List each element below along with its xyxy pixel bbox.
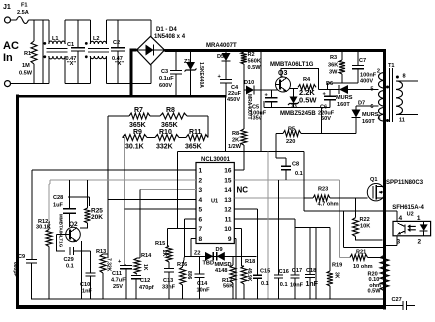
svg-text:R11: R11 xyxy=(189,129,202,136)
svg-text:0.5W: 0.5W xyxy=(368,288,382,294)
svg-text:1: 1 xyxy=(199,168,203,175)
svg-text:450V: 450V xyxy=(227,97,240,103)
svg-text:6: 6 xyxy=(199,216,203,223)
svg-text:49.9K: 49.9K xyxy=(246,268,252,282)
wire pin4 net xyxy=(108,198,196,200)
capacitor C8 xyxy=(281,165,291,167)
capacitor C3 xyxy=(175,52,177,71)
svg-text:C11: C11 xyxy=(112,271,122,277)
wire thick B+ rail xyxy=(165,49,386,52)
svg-text:8: 8 xyxy=(403,74,406,80)
svg-text:0.1uF: 0.1uF xyxy=(159,76,174,82)
svg-text:C10: C10 xyxy=(80,282,90,288)
svg-text:C15: C15 xyxy=(260,269,270,275)
wire R8 right down xyxy=(207,116,209,138)
svg-text:160T: 160T xyxy=(337,102,350,108)
wire aux pin6 xyxy=(356,105,379,107)
svg-text:MMBZ5245B: MMBZ5245B xyxy=(280,111,316,117)
svg-text:680pF: 680pF xyxy=(12,262,18,276)
wire top AC line xyxy=(11,19,17,21)
zener Z2 xyxy=(205,252,213,261)
svg-text:MRA4007T: MRA4007T xyxy=(206,43,237,49)
resistor R2 xyxy=(243,51,245,53)
svg-text:1nF: 1nF xyxy=(82,289,93,295)
svg-text:56K: 56K xyxy=(223,284,233,290)
svg-text:400V: 400V xyxy=(360,79,373,85)
capacitor C18 xyxy=(309,228,311,275)
svg-text:14: 14 xyxy=(224,187,232,194)
svg-text:R16: R16 xyxy=(177,262,187,268)
capacitor C11 xyxy=(125,264,127,266)
wire pin6 net xyxy=(185,218,197,220)
wire thick primary/drain vertical xyxy=(383,49,386,309)
svg-text:SFH615A-4: SFH615A-4 xyxy=(392,205,424,211)
wire Vcc to pin7 xyxy=(177,151,179,228)
capacitor C17 xyxy=(291,274,300,276)
svg-text:11: 11 xyxy=(399,118,405,124)
capacitor C14 xyxy=(199,256,201,274)
svg-text:C12: C12 xyxy=(140,278,150,284)
svg-text:2: 2 xyxy=(418,239,422,246)
wire R9 left vertical xyxy=(124,138,126,266)
capacitor C16 xyxy=(277,180,279,275)
svg-text:C16: C16 xyxy=(279,269,289,275)
transformer core xyxy=(389,68,391,122)
svg-text:33nF: 33nF xyxy=(162,285,176,291)
wire pin13 net xyxy=(234,197,303,199)
svg-text:AC: AC xyxy=(3,40,19,52)
wire pin11 net xyxy=(234,218,295,220)
wire thick bridge minus link xyxy=(130,50,133,97)
resistor R1 xyxy=(33,20,35,41)
wire R5 right up xyxy=(321,108,323,134)
capacitor C2 xyxy=(117,20,119,48)
svg-text:30.1K: 30.1K xyxy=(125,144,144,151)
opto LED xyxy=(423,221,425,224)
svg-text:2.5A: 2.5A xyxy=(17,10,29,16)
diode D5 xyxy=(225,52,227,53)
wire top AC to bridge xyxy=(150,20,152,36)
svg-text:3K: 3K xyxy=(334,272,340,279)
svg-text:600V: 600V xyxy=(159,83,172,89)
wire pin1 net xyxy=(32,169,196,171)
resistor R3 xyxy=(341,51,343,61)
resistor R20 xyxy=(380,255,388,291)
resistor R10 xyxy=(147,137,155,139)
svg-text:0.1: 0.1 xyxy=(295,171,303,177)
svg-text:1: 1 xyxy=(417,215,421,222)
resistor R7 xyxy=(108,115,129,117)
svg-text:1uF: 1uF xyxy=(53,203,64,209)
svg-text:R2: R2 xyxy=(248,52,255,58)
svg-text:806: 806 xyxy=(186,271,192,280)
svg-text:R4: R4 xyxy=(303,77,311,83)
resistor R21 xyxy=(339,256,350,258)
svg-text:MURS: MURS xyxy=(336,95,353,101)
wire B+ drop xyxy=(260,51,262,152)
svg-text:C18: C18 xyxy=(306,268,316,274)
svg-text:1K: 1K xyxy=(142,264,148,271)
svg-text:1/2W: 1/2W xyxy=(228,144,242,150)
capacitor C4 xyxy=(220,79,232,81)
svg-text:2: 2 xyxy=(199,177,203,184)
svg-text:1: 1 xyxy=(377,115,380,121)
svg-text:Q3: Q3 xyxy=(278,70,287,77)
svg-text:10nF: 10nF xyxy=(197,288,211,294)
svg-text:10: 10 xyxy=(224,226,232,233)
capacitor C12 xyxy=(136,273,137,275)
resistor R9 xyxy=(123,137,125,139)
transformer secondary xyxy=(396,81,403,115)
svg-text:D1 - D4: D1 - D4 xyxy=(156,27,177,33)
zener Z1 xyxy=(190,52,192,62)
wire pin10 net xyxy=(234,228,241,230)
svg-text:4.7 ohm: 4.7 ohm xyxy=(318,202,339,208)
capacitor C29 xyxy=(56,235,65,251)
wire thick left return vertical xyxy=(16,95,19,309)
resistor R22 xyxy=(355,198,357,218)
svg-text:1N5408 x 4: 1N5408 x 4 xyxy=(154,34,186,40)
capacitor C13 xyxy=(168,262,170,269)
wire bottom AC line xyxy=(11,83,49,85)
resistor R16 xyxy=(183,256,185,267)
svg-text:R9: R9 xyxy=(133,129,142,136)
svg-text:0.1: 0.1 xyxy=(66,264,74,270)
wire pin8 net xyxy=(191,237,196,239)
svg-text:U1: U1 xyxy=(211,199,218,205)
wire source link xyxy=(342,211,344,247)
wire pin5 net xyxy=(125,208,197,210)
svg-text:6: 6 xyxy=(370,104,373,110)
svg-text:C9: C9 xyxy=(18,254,25,260)
svg-text:Z2: Z2 xyxy=(194,251,201,257)
svg-text:7: 7 xyxy=(199,226,203,233)
wire control ground rail xyxy=(31,298,385,300)
wire pin2 net xyxy=(50,179,196,181)
svg-text:C28: C28 xyxy=(53,195,63,201)
svg-text:9: 9 xyxy=(228,236,232,243)
wire R5 left down xyxy=(275,134,277,159)
svg-text:MMBTA06LT1G: MMBTA06LT1G xyxy=(270,62,314,68)
wire gray mid vertical xyxy=(267,151,269,298)
svg-text:R22: R22 xyxy=(360,217,370,223)
wire D7 to node xyxy=(322,133,356,135)
wire bottom AC to bridge xyxy=(150,65,152,84)
wire pin3 net xyxy=(140,189,196,191)
svg-text:R21: R21 xyxy=(356,250,366,256)
svg-text:3W: 3W xyxy=(329,70,338,76)
svg-text:4: 4 xyxy=(399,215,403,222)
opto phototransistor xyxy=(404,224,406,233)
wire C8 top link xyxy=(276,157,286,159)
svg-text:220: 220 xyxy=(286,139,295,145)
svg-text:R7: R7 xyxy=(134,107,143,114)
svg-text:"X": "X" xyxy=(67,61,76,67)
resistor R17 xyxy=(230,265,236,283)
wire input vertical xyxy=(42,20,44,84)
svg-text:1nF: 1nF xyxy=(306,281,319,288)
capacitor C1 xyxy=(77,20,79,48)
wire Vcc row xyxy=(178,150,304,152)
svg-text:560K: 560K xyxy=(248,59,261,65)
svg-text:Z1: Z1 xyxy=(184,59,191,65)
svg-text:C2: C2 xyxy=(113,40,120,46)
svg-text:8: 8 xyxy=(199,236,203,243)
svg-text:C7: C7 xyxy=(359,58,366,64)
wire pin7 net xyxy=(168,228,197,230)
wire R6 to pin16 xyxy=(234,169,244,171)
resistor R8 xyxy=(150,115,160,117)
svg-text:R8: R8 xyxy=(232,131,239,137)
svg-text:25V: 25V xyxy=(113,284,123,290)
wire opto pin4 lead xyxy=(396,211,398,221)
wire snubber bottom xyxy=(328,82,358,84)
wire pin9 net xyxy=(234,237,236,239)
svg-text:C1: C1 xyxy=(67,42,74,48)
wire emitter node bottom xyxy=(264,107,330,109)
resistor R19 xyxy=(329,228,331,272)
svg-text:4148: 4148 xyxy=(215,268,227,274)
svg-text:1.5KE440A: 1.5KE440A xyxy=(198,62,204,88)
zener Z3 xyxy=(293,89,295,97)
svg-text:10nF: 10nF xyxy=(290,283,304,289)
svg-text:C29: C29 xyxy=(64,257,74,263)
capacitor C10 xyxy=(89,251,91,273)
svg-text:7.32K: 7.32K xyxy=(106,258,112,272)
svg-text:365K: 365K xyxy=(185,144,202,151)
svg-text:MMBTA06LT1G: MMBTA06LT1G xyxy=(59,214,64,248)
svg-text:R18: R18 xyxy=(245,259,255,265)
wire thick bottom return bus xyxy=(16,305,386,309)
svg-text:U2: U2 xyxy=(407,212,414,218)
wire mid vertical a xyxy=(315,228,317,299)
svg-text:160T: 160T xyxy=(362,119,375,125)
svg-text:NCL30001: NCL30001 xyxy=(201,157,231,163)
wire Q2 base xyxy=(56,234,66,236)
svg-text:In: In xyxy=(3,52,13,64)
svg-text:4: 4 xyxy=(199,197,203,204)
svg-text:12: 12 xyxy=(224,207,232,214)
wire pin12 net xyxy=(234,208,257,210)
svg-text:0.5W: 0.5W xyxy=(19,71,33,77)
svg-text:15: 15 xyxy=(224,177,232,184)
svg-text:3: 3 xyxy=(199,187,203,194)
svg-text:13: 13 xyxy=(224,197,232,204)
capacitor C5 xyxy=(270,90,272,98)
svg-text:16: 16 xyxy=(224,168,232,175)
svg-text:0.5W: 0.5W xyxy=(248,65,262,71)
opto light arrows xyxy=(408,225,416,228)
wire R23 junction vertical xyxy=(303,151,305,211)
fuse F1 xyxy=(17,17,29,24)
wire opto pin4 row xyxy=(304,210,397,212)
wire opto pin3 lead xyxy=(396,236,398,246)
svg-text:NC: NC xyxy=(237,186,249,195)
svg-text:10 ohm: 10 ohm xyxy=(353,264,373,270)
svg-text:0.5W: 0.5W xyxy=(299,96,317,105)
svg-text:5: 5 xyxy=(199,207,203,214)
svg-text:50V: 50V xyxy=(321,116,331,122)
svg-text:R1: R1 xyxy=(24,51,31,57)
zener Z2 and diode D9 row xyxy=(185,255,257,257)
wire Q3 collector wrap xyxy=(281,69,319,90)
svg-text:R14: R14 xyxy=(141,253,152,259)
svg-text:D5: D5 xyxy=(217,54,224,60)
resistor R11 xyxy=(179,137,186,139)
svg-text:332K: 332K xyxy=(156,144,173,151)
svg-text:J1: J1 xyxy=(3,4,11,11)
svg-text:36K: 36K xyxy=(328,63,338,69)
svg-text:C27: C27 xyxy=(392,297,402,303)
op-amp U1 NCL30001 xyxy=(196,163,234,244)
wire pin15 net xyxy=(234,179,339,181)
wire R19 top row xyxy=(295,227,330,229)
wire thick bridge-minus bus xyxy=(16,95,226,98)
resistor R25 xyxy=(85,208,91,223)
svg-text:R23: R23 xyxy=(318,187,328,193)
svg-text:R15: R15 xyxy=(155,241,165,247)
svg-text:D10: D10 xyxy=(244,80,254,86)
svg-text:4.7uF: 4.7uF xyxy=(111,278,126,284)
resistor R23 xyxy=(304,197,313,199)
svg-text:D6: D6 xyxy=(326,81,333,87)
svg-text:20K: 20K xyxy=(91,214,103,221)
resistor R6 xyxy=(243,90,245,129)
capacitor C15 xyxy=(253,274,262,276)
svg-text:R8: R8 xyxy=(166,107,175,114)
svg-text:"X": "X" xyxy=(115,61,124,67)
svg-text:T1: T1 xyxy=(388,63,395,69)
svg-text:2K: 2K xyxy=(232,138,239,144)
svg-text:C14: C14 xyxy=(197,281,208,287)
wire C4 node down xyxy=(225,96,227,151)
svg-text:2K: 2K xyxy=(161,250,167,257)
bridge rectifier D1-D4 xyxy=(137,36,165,65)
wire C28 link xyxy=(68,196,89,198)
svg-text:MURS: MURS xyxy=(362,112,379,118)
svg-text:C13: C13 xyxy=(163,278,173,284)
resistor R4 xyxy=(298,85,316,91)
svg-text:R3: R3 xyxy=(330,55,337,61)
capacitor C6 xyxy=(329,90,331,97)
wire R7 left vertical xyxy=(107,116,109,258)
capacitor C7 xyxy=(357,51,359,66)
svg-text:R19: R19 xyxy=(332,263,342,269)
svg-text:10K: 10K xyxy=(360,224,370,230)
wire Q2 emitter xyxy=(81,241,83,299)
svg-text:0.1: 0.1 xyxy=(280,282,288,288)
connector J1 xyxy=(5,17,11,23)
svg-text:SPP11N80C3: SPP11N80C3 xyxy=(386,180,424,186)
wire Q3 emitter to R4 xyxy=(290,88,299,90)
svg-text:470pf: 470pf xyxy=(139,285,154,291)
svg-text:11: 11 xyxy=(225,216,232,223)
svg-text:R10: R10 xyxy=(159,129,172,136)
svg-text:C8: C8 xyxy=(292,162,299,168)
svg-text:C17: C17 xyxy=(292,268,302,274)
svg-text:5: 5 xyxy=(370,87,373,93)
svg-text:C3: C3 xyxy=(161,69,168,75)
svg-text:F1: F1 xyxy=(21,3,28,9)
svg-text:0.1: 0.1 xyxy=(261,281,269,287)
svg-text:1M: 1M xyxy=(22,63,30,69)
svg-text:TBD: TBD xyxy=(203,261,215,267)
svg-text:Q1: Q1 xyxy=(370,177,377,183)
